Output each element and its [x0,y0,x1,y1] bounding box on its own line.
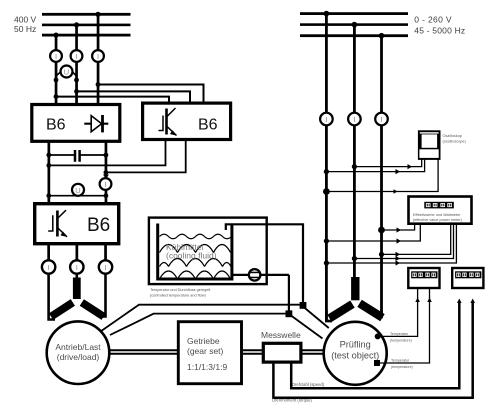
node V2-left [46,193,51,198]
wire temp1 [378,288,418,336]
bus L2 right [300,23,408,26]
ammeter A7 [99,260,112,273]
svg-text:(effective value power meter): (effective value power meter) [413,218,463,222]
ammeter A5 [42,260,55,273]
hose to motor upper [101,305,139,332]
winding M2 right [357,300,384,321]
temp display right [452,268,483,288]
wire phase P6 [380,35,383,317]
winding M2 left [327,300,354,321]
svg-text:I: I [353,115,355,124]
bus L1 right [300,12,408,15]
node hose-upper [300,302,307,309]
bus L1 left [42,13,131,16]
node oscA [352,164,357,169]
arrow speed-in [457,299,462,304]
svg-text:I: I [104,180,106,189]
wire tap P2 to inverter [77,91,191,103]
wire torque [273,303,472,398]
bus L3 right [300,34,408,37]
DC rail minus [105,141,108,204]
arrow DC down [103,175,109,180]
node oscB [324,169,329,174]
svg-text:I: I [76,263,78,272]
arrow watt2 [397,238,402,243]
ammeter A10 [375,113,388,126]
arrow oscB [396,169,401,174]
winding M1 left [49,299,75,320]
arrow watt1 [397,227,402,232]
node DC-B [104,170,109,175]
svg-text:Drehmoment (torque): Drehmoment (torque) [272,398,313,403]
capacitor C1 [75,150,80,162]
ammeter A9 [348,113,361,126]
node watt5 [324,260,329,265]
arrow oscC [394,189,398,194]
wire winding U [49,273,55,320]
cooling outer box [149,218,267,285]
pipe pump-out [232,275,289,313]
ammeter A1 [50,50,62,62]
wire phase P5 [353,24,356,277]
arrow watt5 [396,260,401,265]
svg-text:(temperature): (temperature) [391,365,413,369]
svg-text:Temperatur: Temperatur [391,359,410,363]
node tap-P3 [96,82,101,87]
svg-text:I: I [380,115,382,124]
node P3-bus [95,12,100,17]
wire watt tap 2 [326,224,420,241]
hose to motor lower [110,314,154,335]
wire osc tap B [326,159,424,172]
wire winding W [99,273,106,317]
svg-text:50 Hz: 50 Hz [14,24,36,34]
oscilloscope [418,130,441,160]
wire temp2 [377,288,430,363]
voltmeter V1 wires [56,72,77,80]
svg-text:(drive/load): (drive/load) [57,352,100,362]
bus L3 left [42,34,131,37]
svg-text:(cooling fluid): (cooling fluid) [166,250,217,260]
arrow temp1 [415,298,420,303]
winding M2 middle [351,277,359,300]
voltmeter V1 [61,66,73,78]
bus L2 left [42,24,131,27]
inverter box B6-2 [143,103,231,139]
wire DC-B inverter return [106,139,186,172]
wire tap P3 to inverter [98,85,204,104]
node hose-lower [286,310,293,317]
wire phase P4 [325,13,328,322]
IGBT Q2 [48,210,67,237]
svg-text:0 - 260 V: 0 - 260 V [414,15,452,25]
arrow watt4 [396,256,401,261]
wire out W [104,244,107,261]
svg-text:I: I [325,115,327,124]
svg-text:Prüfling: Prüfling [340,339,371,349]
node watt3 [379,252,384,257]
node P6-bus [379,33,385,39]
svg-text:(controlled temperature and fl: (controlled temperature and flow) [150,294,206,298]
svg-text:I: I [75,52,77,61]
wire out V [76,244,79,261]
wire osc tap A [354,159,421,167]
wattmeter box [409,197,472,224]
svg-text:(gear set): (gear set) [187,346,224,356]
node DC-A [46,163,51,168]
wire winding V [76,273,79,279]
ammeter A8 [320,113,333,126]
node tap-P1 [54,94,59,99]
wire osc tap C [326,159,438,192]
wire winding P4 [326,310,332,321]
node oscC [323,188,330,195]
node C1-right [104,153,109,158]
gearbox [178,322,241,384]
wire phase P2 [75,24,78,103]
test object M2 [324,322,387,385]
node sensor1 [375,333,381,339]
svg-text:I: I [48,263,50,272]
wire phase P3 [97,14,100,103]
temp display left [408,268,439,288]
svg-text:1:1/1:3/1:9: 1:1/1:3/1:9 [187,362,227,372]
hose upper [138,304,303,306]
svg-text:B6: B6 [87,215,110,236]
node P4-bus [324,11,330,17]
svg-text:(temperature): (temperature) [390,339,412,343]
node V1-b [74,78,79,83]
svg-text:B6: B6 [46,117,66,134]
rectifier box B6-1 [32,105,120,142]
shaft gear-messwelle [243,350,262,354]
hose to test lower [289,314,323,339]
node watt2 [324,238,329,243]
wattmeter display [424,202,454,209]
motor M1 [47,321,110,384]
svg-text:Oszilloskop: Oszilloskop [443,134,462,138]
node P2-bus [74,22,79,27]
wire tap P1 to inverter [56,97,169,103]
arrow oscA [408,164,413,169]
svg-text:Messwelle: Messwelle [261,330,301,340]
shaft messwelle-test [303,350,326,354]
wire phase P1 [55,35,58,104]
ammeter A3 [92,50,104,62]
svg-text:I: I [104,263,106,272]
svg-text:U: U [75,186,80,195]
svg-text:Effektivwerte und Wattmeter: Effektivwerte und Wattmeter [413,213,461,217]
node watt1 [378,227,385,234]
wire watt tap 4 [354,224,453,259]
svg-text:I: I [55,52,57,61]
node P1-bus [53,33,58,38]
svg-text:I: I [97,52,99,61]
winding M1 right [80,299,106,320]
inverter box B6-3 [35,204,119,244]
IGBT Q1 [159,108,177,136]
svg-text:Temperatur: Temperatur [390,332,409,336]
svg-text:Getriebe: Getriebe [187,336,220,346]
node C1-left [46,153,51,158]
node sensor2 [374,360,380,366]
ammeter A6 [70,260,83,273]
tank waves [160,234,232,279]
wire speed [291,303,459,389]
ammeter A4 [100,178,112,190]
pump [248,268,262,282]
wire DC-A inverter return [49,139,166,165]
tank walls [158,224,232,280]
wire V2 bottom [49,195,106,197]
svg-text:45 - 5000 Hz: 45 - 5000 Hz [414,25,465,35]
node tap-P2 [74,89,79,94]
node V1-a [54,78,59,83]
wire watt tap 5 [326,224,456,263]
hose lower [153,313,289,315]
hose to test upper [303,307,329,329]
capacitor C1 wires [49,154,106,156]
DC rail plus [48,141,51,204]
wire winding P6 [378,310,382,317]
pipe tank-top [226,224,303,305]
svg-text:U: U [64,68,69,77]
voltmeter V2 [74,192,83,196]
arrow torque-in [470,299,475,304]
svg-text:400 V: 400 V [14,15,37,25]
winding M1 middle [73,278,81,300]
wire watt tap 1 [382,224,415,230]
arrow temp2 [427,298,432,303]
svg-text:Antrieb/Last: Antrieb/Last [55,342,101,352]
node watt4 [352,256,357,261]
diode D1 [84,115,108,132]
shaft motor-gear [109,350,178,354]
arrow watt3 [396,252,401,257]
svg-text:(test object): (test object) [331,350,379,360]
svg-text:Temperatur und Durchfluss gere: Temperatur und Durchfluss geregelt [150,288,211,292]
torque shaft box [263,343,301,362]
wire watt tap 3 [382,224,451,254]
node V2-right [104,193,109,198]
node P5-bus [352,22,358,28]
svg-text:(oscilloscope): (oscilloscope) [443,140,467,144]
wire out U [47,244,50,261]
svg-text:Drehzahl (speed): Drehzahl (speed) [292,382,325,387]
ammeter A2 [71,50,83,62]
svg-text:B6: B6 [198,117,218,134]
